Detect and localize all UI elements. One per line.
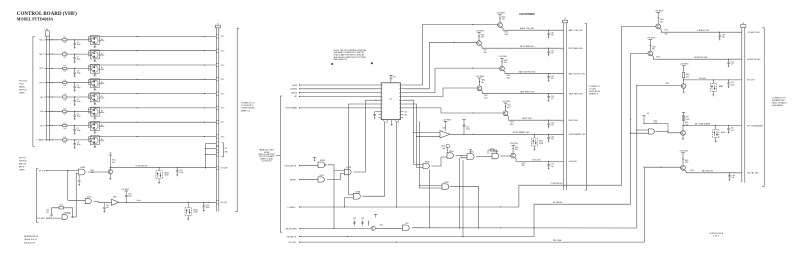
wire U32C out to U32B <box>327 173 345 179</box>
gate U31A <box>423 163 429 168</box>
svg-text:PD 1: PD 1 <box>40 125 44 127</box>
wire gate U31D to Q26 <box>501 155 511 157</box>
svg-text:J3: J3 <box>564 18 566 20</box>
svg-text:o: o <box>382 85 383 87</box>
svg-text:SHUTDOWN: SHUTDOWN <box>285 228 297 230</box>
gate U50B <box>62 215 67 220</box>
wire to IC pin <box>299 84 378 86</box>
wire divider pin 6 down <box>348 103 378 105</box>
node junction row 7 mid <box>136 122 137 123</box>
svg-text:1P 1: 1P 1 <box>221 36 225 38</box>
svg-text:R7: R7 <box>64 123 66 125</box>
svg-text:CHG LED: CHG LED <box>569 161 578 163</box>
svg-text:U31B: U31B <box>449 151 454 153</box>
node junction bus row 3 <box>49 68 50 69</box>
svg-text:HK 1: HK 1 <box>40 97 44 99</box>
svg-text:10k: 10k <box>63 56 66 58</box>
svg-text:4148: 4148 <box>194 212 198 214</box>
ground AN51 <box>187 215 189 218</box>
svg-text:4k1: 4k1 <box>101 96 104 98</box>
svg-text:10k: 10k <box>63 99 66 101</box>
gate U31C <box>467 154 474 160</box>
node junction mic <box>126 202 127 203</box>
svg-text:+5V REG: +5V REG <box>121 189 130 191</box>
wire 5-TRACK bus <box>299 26 622 207</box>
wire to IC pin <box>299 88 378 90</box>
svg-text:MIC 2: MIC 2 <box>40 54 45 56</box>
transistor Q R26 driver <box>511 153 516 158</box>
svg-text:RX MUT: RX MUT <box>38 218 46 220</box>
svg-text:U32B: U32B <box>346 167 351 169</box>
svg-text:R1: R1 <box>64 37 66 39</box>
svg-text:10k: 10k <box>63 85 66 87</box>
capacitor C61 <box>728 59 729 60</box>
svg-text:R4: R4 <box>64 80 66 82</box>
power pullup R40 path <box>644 122 668 124</box>
wire row to transistor <box>67 96 91 98</box>
bracket to display board <box>585 24 587 191</box>
transistor array Q7 <box>91 121 100 130</box>
svg-text:4148: 4148 <box>164 175 168 177</box>
wire KEYED 9V line <box>110 167 216 169</box>
svg-text:4k7: 4k7 <box>481 82 484 84</box>
capacitor C33 <box>548 93 549 94</box>
svg-text:MONITOR LED: MONITOR LED <box>694 57 708 59</box>
svg-text:100n: 100n <box>466 129 470 131</box>
svg-text:R2: R2 <box>64 51 66 53</box>
svg-text:U41: U41 <box>405 223 408 225</box>
transistor array Q8 <box>91 136 100 145</box>
transistor array Q6 <box>91 107 100 116</box>
svg-text:100p: 100p <box>77 58 81 60</box>
svg-text:TALK PERT LED: TALK PERT LED <box>520 91 535 94</box>
diode clamp on IC pin 8 <box>375 111 379 113</box>
svg-text:4k7: 4k7 <box>660 21 663 23</box>
svg-text:SUPPLEMENT LED: SUPPLEMENT LED <box>513 132 531 134</box>
svg-text:RL LED: RL LED <box>221 202 228 204</box>
wire row output to connector <box>89 64 217 66</box>
svg-text:10k: 10k <box>63 71 66 73</box>
wire IC pin riser to 5-track <box>396 121 398 207</box>
svg-text:4k1: 4k1 <box>101 82 104 84</box>
svg-text:+5V REG: +5V REG <box>680 64 689 66</box>
node junction cap row 1 <box>74 39 75 40</box>
svg-text:PANEL: PANEL <box>19 86 25 89</box>
wire gate U31B to U31C <box>455 155 467 157</box>
resistor R3 <box>63 67 67 69</box>
svg-text:560: 560 <box>507 77 510 79</box>
svg-text:T-A-M: T-A-M <box>292 84 298 87</box>
IC U2 right pins <box>401 84 404 86</box>
wire MT collector output <box>683 80 685 84</box>
wire 5-track tap riser <box>343 198 345 207</box>
transistor array Q1 <box>91 36 100 45</box>
capacitor C3 <box>74 68 76 72</box>
wire to IC pin <box>299 95 378 97</box>
node junction row 2 mid <box>136 50 137 51</box>
svg-text:10k: 10k <box>63 114 66 116</box>
svg-text:R63: R63 <box>656 57 659 59</box>
svg-text:100n: 100n <box>206 207 210 209</box>
wire U31E inputs <box>420 121 442 188</box>
wire PTT riser down <box>67 171 69 201</box>
svg-text:1P 4: 1P 4 <box>221 79 225 81</box>
svg-text:TAL TAL LED: TAL TAL LED <box>747 172 759 175</box>
svg-text:R69: R69 <box>690 170 693 172</box>
node junction cap row 4 <box>74 82 75 83</box>
wire row output to connector <box>89 50 217 52</box>
capacitor C51 <box>50 213 53 215</box>
svg-text:o: o <box>382 100 383 102</box>
svg-text:4k1: 4k1 <box>101 125 104 127</box>
svg-text:10k: 10k <box>442 148 445 150</box>
capacitor C50 <box>177 167 178 168</box>
svg-text:CONTROLS: CONTROLS <box>262 161 273 163</box>
wire row to transistor <box>67 125 91 127</box>
node junction keyed 9V <box>110 167 111 168</box>
wire x334 riser <box>333 171 335 229</box>
ground AN60 <box>712 91 714 94</box>
wire input row <box>45 125 63 127</box>
wire SUPPLEMENT LED net <box>450 133 564 135</box>
resistor R2 <box>63 53 67 55</box>
svg-text:LP LATT: LP LATT <box>221 167 229 170</box>
wire input row <box>45 67 63 69</box>
svg-text:AMUT CNL LED: AMUT CNL LED <box>569 29 583 32</box>
svg-text:100p: 100p <box>77 101 81 103</box>
node junction row 6 mid <box>136 107 137 108</box>
power tick Q40 <box>374 213 377 215</box>
IC U2 left pins <box>378 84 381 86</box>
ground under transistor <box>94 72 96 75</box>
svg-text:+5V REG: +5V REG <box>647 38 656 40</box>
svg-text:100p: 100p <box>77 116 81 118</box>
node junction v2 y119 <box>630 119 631 120</box>
wire row output to connector <box>89 136 217 138</box>
svg-text:10k: 10k <box>63 142 66 144</box>
svg-text:4 OF 9: 4 OF 9 <box>713 236 719 238</box>
node junction cap row 2 <box>74 54 75 55</box>
svg-text:CONTROL BOARD (VHF): CONTROL BOARD (VHF) <box>17 10 77 17</box>
svg-text:MT TONE ALARM: MT TONE ALARM <box>747 124 763 127</box>
svg-text:MT LED: MT LED <box>747 80 755 82</box>
capacitor C60 <box>719 32 720 33</box>
wire input row <box>45 53 63 55</box>
wire U50A gate top feed <box>68 199 85 201</box>
capacitor C66 <box>729 172 730 173</box>
wire output stub <box>99 126 104 128</box>
resistor R8 <box>63 139 67 141</box>
node junction bus row 6 <box>49 111 50 112</box>
svg-text:MT CON-: MT CON- <box>19 81 27 83</box>
node junction row 8 mid <box>136 136 137 137</box>
wire keyed stub rows <box>206 143 217 145</box>
capacitor C4 <box>74 83 76 87</box>
wire gate D inputs <box>637 129 649 131</box>
power rail B+ box <box>45 31 49 36</box>
wire input row <box>45 96 63 98</box>
wire row output to connector <box>89 93 217 95</box>
power tick U32A <box>313 156 316 158</box>
wire emitter output <box>501 27 563 30</box>
wire shutdown gate riser <box>429 170 431 228</box>
capacitor C1 <box>74 40 76 44</box>
gate U31D <box>492 153 499 159</box>
svg-text:RESET: RESET <box>290 180 297 182</box>
svg-text:MPUT ANN LED: MPUT ANN LED <box>569 47 584 50</box>
node junction diode tap <box>159 167 160 168</box>
svg-text:10k: 10k <box>91 172 94 174</box>
svg-text:OPT 2: OPT 2 <box>39 83 44 85</box>
wire IC pin3 to LED driver 3 <box>403 68 499 93</box>
wire row output to connector <box>89 35 217 37</box>
resistor R64 <box>683 66 685 73</box>
svg-text:R61: R61 <box>665 29 668 31</box>
connector J1 pin rungs <box>216 34 219 36</box>
svg-text:100k: 100k <box>686 119 690 121</box>
power +5V for Q50 <box>109 154 112 156</box>
svg-text:BUSY LED: BUSY LED <box>569 120 579 122</box>
wire shutdown bus to right section <box>412 227 637 229</box>
node junction bus row 1 <box>49 39 50 40</box>
diode pack AN51 (dashed) <box>188 202 189 203</box>
transistor Q66 <box>681 130 686 135</box>
wire row E output <box>684 170 741 173</box>
svg-text:U50C: U50C <box>87 197 92 199</box>
ground Q66 emitter <box>682 135 684 138</box>
svg-text:4k1: 4k1 <box>101 68 104 70</box>
wire output stub <box>99 97 104 99</box>
svg-text:10n: 10n <box>46 212 49 214</box>
ground AN61 <box>715 138 717 141</box>
svg-text:AND RX: AND RX <box>19 163 27 166</box>
bracket right to speaker <box>762 28 764 187</box>
svg-text:TALK PERT LED: TALK PERT LED <box>569 93 584 96</box>
wire U50B output node <box>71 216 77 218</box>
svg-text:100p: 100p <box>77 144 81 146</box>
wire gate U31C to U31D <box>476 156 492 158</box>
svg-text:100p: 100p <box>77 130 81 132</box>
wire input row <box>45 139 63 141</box>
svg-text:100n: 100n <box>179 172 183 174</box>
svg-text:4k1: 4k1 <box>101 53 104 55</box>
svg-text:+5V REG: +5V REG <box>679 151 688 153</box>
gate U33A <box>353 193 360 199</box>
resistor R6 <box>63 110 67 112</box>
wire IC pin6 down to gate <box>403 104 423 168</box>
diode pack AN60 (dashed) <box>712 80 714 84</box>
svg-text:CHG LED: CHG LED <box>532 159 541 161</box>
svg-text:o: o <box>382 89 383 91</box>
capacitor C2 <box>74 54 76 58</box>
svg-text:4k7: 4k7 <box>685 162 688 164</box>
resistor R5 <box>63 96 67 98</box>
diode pack AN1 (dashed) <box>534 134 536 138</box>
svg-text:100n: 100n <box>128 196 132 198</box>
gate U32C <box>318 177 324 182</box>
svg-text:5-TRACK LED: 5-TRACK LED <box>697 29 710 32</box>
svg-text:331/332-CP: 331/332-CP <box>24 242 36 244</box>
svg-text:SUPPLEMENT LED: SUPPLEMENT LED <box>569 134 587 136</box>
svg-text:o: o <box>382 104 383 106</box>
svg-text:R3: R3 <box>64 66 66 68</box>
transistor array Q2 <box>91 50 100 59</box>
transistor Q R18 driver <box>500 66 505 71</box>
wire U32A out to U32B <box>328 165 345 171</box>
capacitor C5 <box>74 97 76 101</box>
wire IC pin1 to LED driver 1 <box>403 25 497 86</box>
transistor array Q5 <box>91 93 100 102</box>
wire gate to Q50 <box>88 171 109 173</box>
wire to IC pin <box>299 92 378 94</box>
transistor Q R16 driver <box>477 41 482 46</box>
IC U2 bottom pins <box>383 120 385 122</box>
gate U32A <box>318 162 325 168</box>
svg-text:MONITOR LED: MONITOR LED <box>747 59 761 61</box>
svg-text:U32C: U32C <box>320 175 325 177</box>
svg-text:VOL SVL: VOL SVL <box>288 242 296 244</box>
svg-text:RX LATCH: RX LATCH <box>553 201 563 204</box>
op-amp A50 buffer <box>112 199 119 205</box>
capacitor C30 <box>548 30 549 31</box>
wire emitter output <box>507 115 564 120</box>
power bus wire (double vertical) <box>45 36 47 141</box>
wire Q66 collector to row D <box>682 126 684 131</box>
svg-text:4148: 4148 <box>539 143 543 145</box>
svg-text:o: o <box>382 96 383 98</box>
svg-text:4k1: 4k1 <box>101 39 104 41</box>
svg-text:MODEL PTTD4018A: MODEL PTTD4018A <box>17 18 54 22</box>
svg-text:+5V REG: +5V REG <box>476 76 485 78</box>
transistor array Q4 <box>91 79 100 88</box>
resistor R1 <box>63 39 67 41</box>
svg-text:1P 5: 1P 5 <box>221 93 225 95</box>
capacitor C7 <box>74 126 76 130</box>
svg-text:100n: 100n <box>731 84 735 86</box>
wire input row <box>45 110 63 112</box>
svg-text:(SEE SHEET 2).: (SEE SHEET 2). <box>334 59 348 61</box>
svg-text:SW: SW <box>225 151 228 153</box>
svg-text:1P 7: 1P 7 <box>221 122 225 124</box>
svg-text:SB LATCH: SB LATCH <box>287 235 297 238</box>
node junction cap row 7 <box>74 125 75 126</box>
node junction cap row 3 <box>74 68 75 69</box>
svg-text:+5V REG: +5V REG <box>496 13 505 15</box>
wire U33A output riser to IC pin <box>363 121 385 196</box>
resistor R7 <box>63 125 67 127</box>
svg-text:5-TRACK: 5-TRACK <box>287 206 296 209</box>
svg-text:4k7: 4k7 <box>502 19 505 21</box>
svg-text:MPUT ANN LED: MPUT ANN LED <box>520 45 535 48</box>
wire oscillator feedback to IC pin 5 <box>365 99 378 101</box>
svg-text:5T KEYED 9V: 5T KEYED 9V <box>551 183 564 185</box>
node junction row 4 mid <box>136 79 137 80</box>
svg-text:4k1: 4k1 <box>101 139 104 141</box>
gate U41 <box>403 225 410 231</box>
capacitor C37 <box>548 161 549 162</box>
svg-text:A 1: A 1 <box>404 110 407 113</box>
connector J3 (LED board) <box>562 20 567 23</box>
svg-text:C41: C41 <box>353 218 356 220</box>
wire MIC line to connector <box>119 201 217 203</box>
node junction row 5 mid <box>136 93 137 94</box>
wire comparator input taps <box>414 132 440 134</box>
node junction bus row 8 <box>49 139 50 140</box>
svg-text:MAX OUTPUT LED: MAX OUTPUT LED <box>519 71 536 74</box>
ground under transistor <box>94 44 96 47</box>
wire base row MT <box>637 85 681 87</box>
ground under transistor <box>94 101 96 104</box>
svg-text:C20: C20 <box>393 77 396 79</box>
svg-text:(VIA CABLE): (VIA CABLE) <box>772 104 783 107</box>
svg-text:R8: R8 <box>64 137 66 139</box>
svg-text:MUTE: MUTE <box>19 167 25 169</box>
capacitor C6 <box>74 111 76 115</box>
svg-text:100: 100 <box>686 76 689 78</box>
wire SB LATCH bus <box>299 53 631 236</box>
wire VOL bus <box>299 167 644 242</box>
wire row output to connector <box>89 107 217 109</box>
wire shutdown riser to MT base <box>636 86 638 229</box>
ground IC U2 <box>391 121 393 123</box>
note marker dot left <box>331 63 333 65</box>
svg-text:TROL: TROL <box>19 84 24 86</box>
svg-text:1P 2: 1P 2 <box>221 51 225 53</box>
svg-text:o: o <box>382 92 383 94</box>
wire base row B <box>631 52 648 54</box>
svg-text:SWITCH: SWITCH <box>19 90 27 92</box>
transistor driver R60 right <box>656 24 661 29</box>
node junction bus row 4 <box>49 82 50 83</box>
wire U32B output riser to IC <box>354 100 366 172</box>
wire U31E output to shutdown bus <box>450 187 479 228</box>
ground under transistor <box>94 58 96 61</box>
svg-text:A 2: A 2 <box>404 113 407 116</box>
wire RX to gate U50B <box>46 217 62 219</box>
svg-text:560: 560 <box>665 34 668 36</box>
wire gate riser pair to latch buses <box>459 158 461 228</box>
wire row to transistor <box>67 82 91 84</box>
wire feedback loop top <box>52 208 59 214</box>
wire gate U31A output <box>432 157 447 166</box>
svg-text:U32A: U32A <box>320 159 325 162</box>
svg-text:+5V REG: +5V REG <box>498 56 507 58</box>
svg-text:5-TRACK LED: 5-TRACK LED <box>747 31 760 34</box>
node junction row 1 mid <box>136 36 137 37</box>
wire output stub <box>99 54 104 56</box>
svg-text:+5V REG: +5V REG <box>655 10 664 12</box>
note marker dot right <box>371 62 373 64</box>
svg-text:AN61: AN61 <box>721 131 726 134</box>
gate U32B <box>344 169 351 175</box>
transistor array Q3 <box>91 64 100 73</box>
svg-text:4k7: 4k7 <box>112 162 115 164</box>
ground AN1 <box>534 146 536 148</box>
svg-text:J4: J4 <box>742 23 744 25</box>
svg-text:J1: J1 <box>217 23 219 25</box>
wire output stub <box>99 111 104 113</box>
svg-text:R6: R6 <box>64 109 66 111</box>
svg-text:R52: R52 <box>60 205 63 207</box>
svg-text:AN60: AN60 <box>719 85 724 88</box>
ground under transistor <box>94 115 96 118</box>
svg-text:X1: X1 <box>386 122 388 124</box>
svg-text:o: o <box>382 114 383 116</box>
transistor Q R20 driver <box>477 86 482 91</box>
ground MT emitter <box>683 88 685 91</box>
capacitor C62 <box>728 79 729 80</box>
capacitor C35 reference <box>462 119 465 121</box>
